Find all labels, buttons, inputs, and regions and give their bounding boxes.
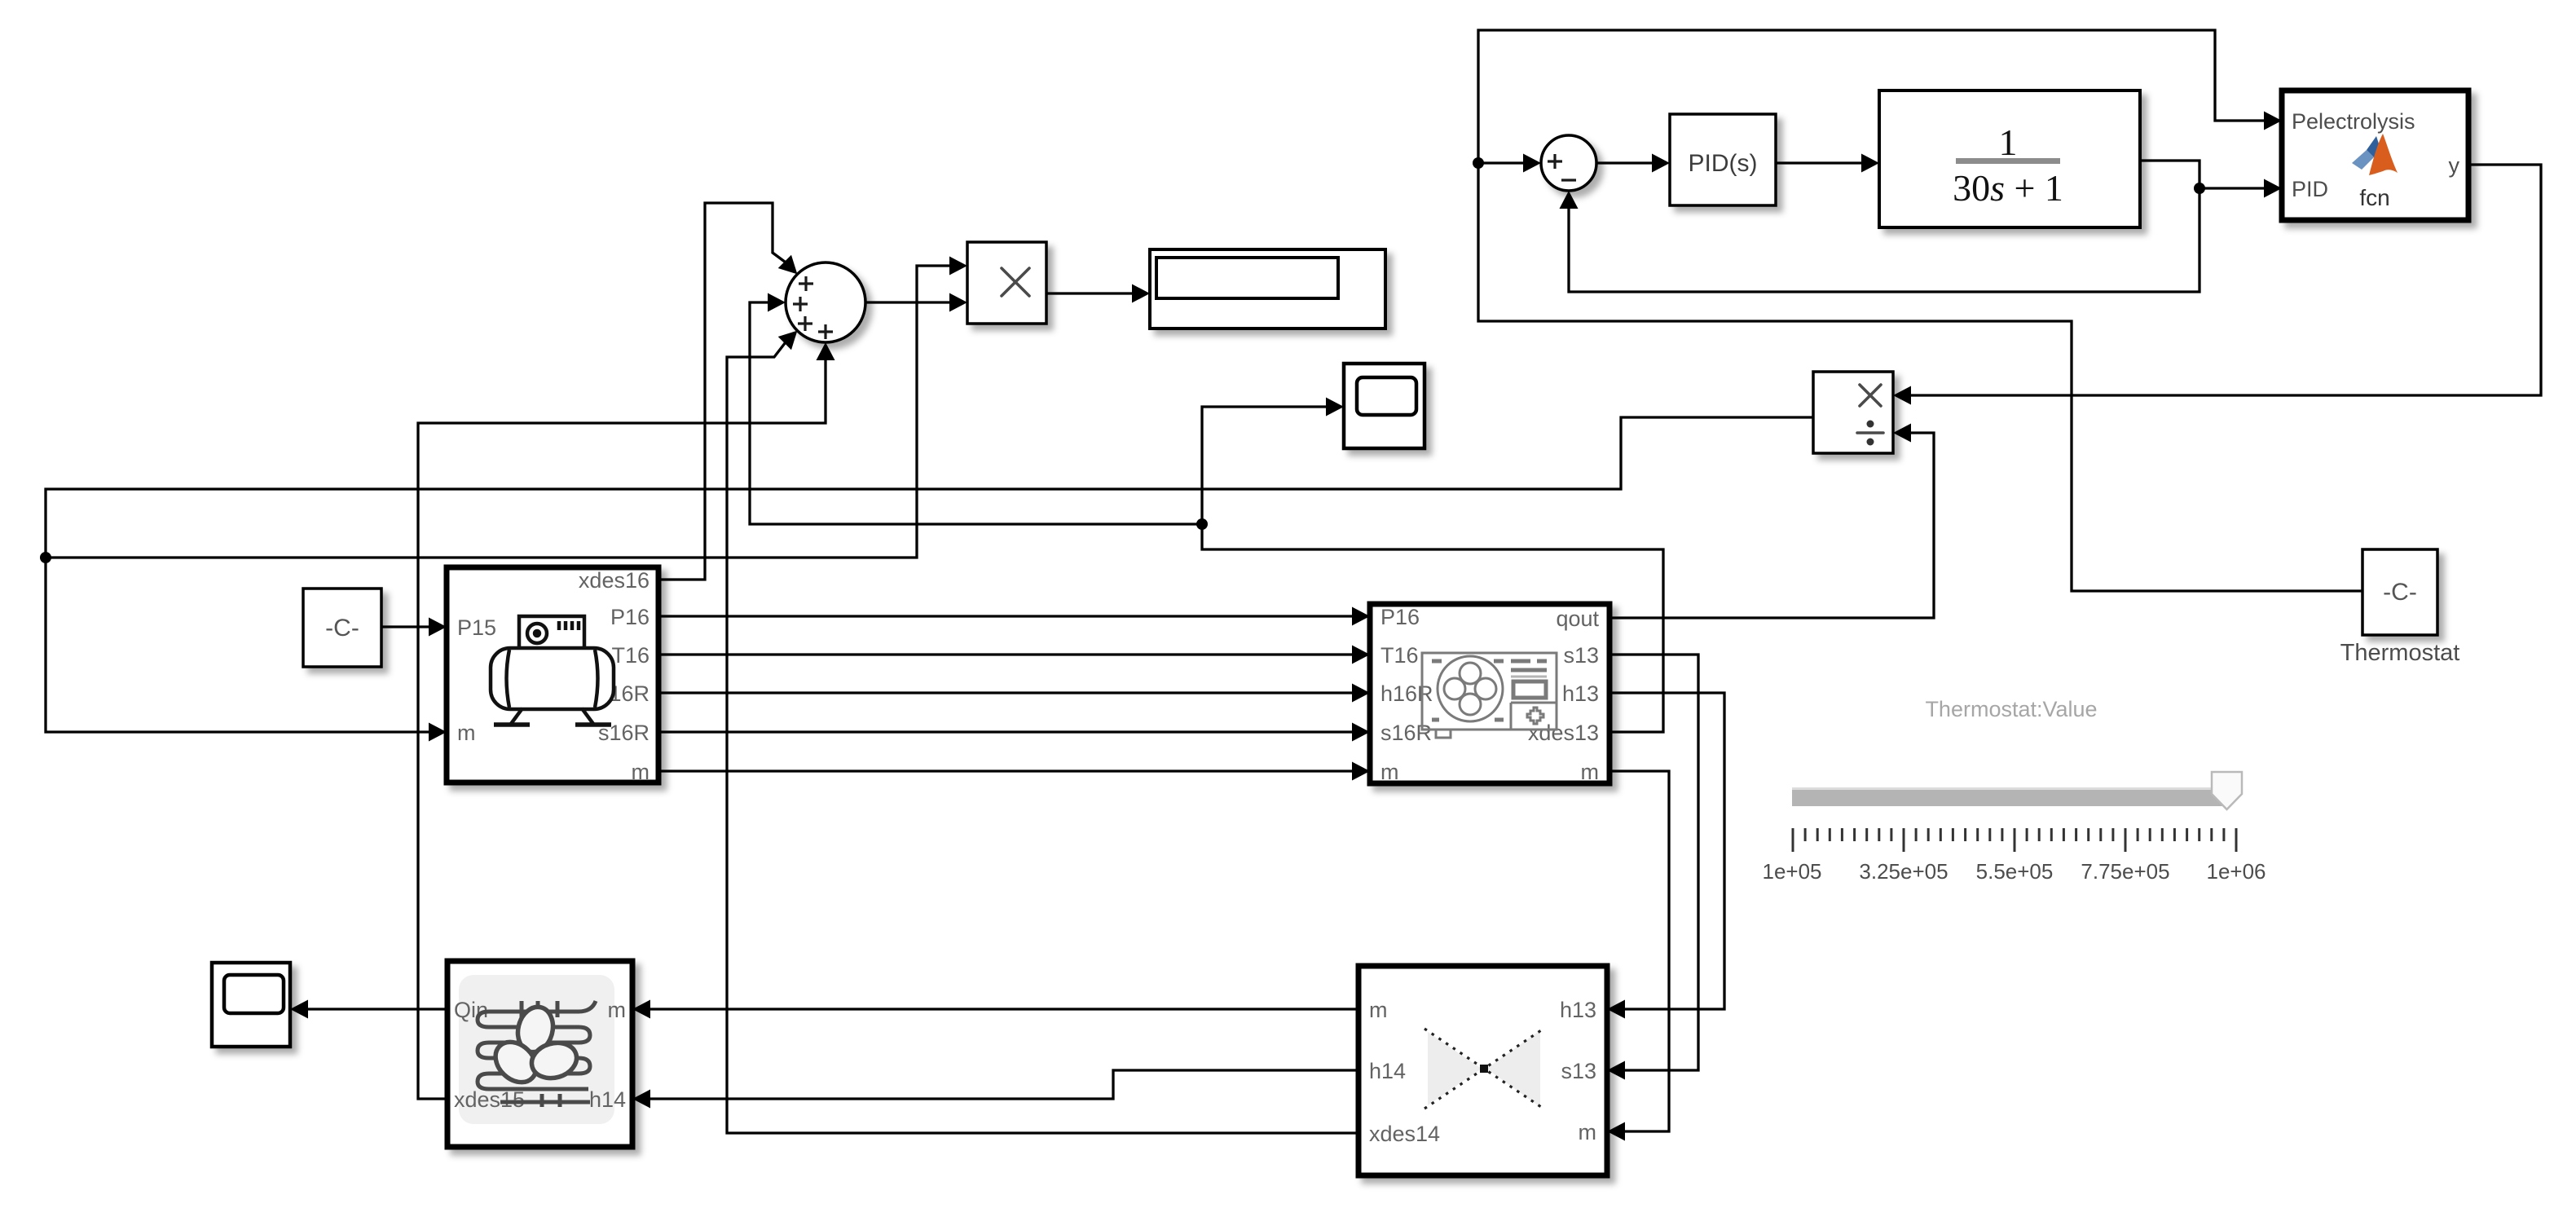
svg-text:m: m	[1581, 760, 1600, 784]
svg-text:1: 1	[1999, 121, 2018, 163]
svg-text:m: m	[608, 998, 627, 1022]
svg-text:P16: P16	[610, 605, 650, 629]
svg-text:xdes14: xdes14	[1369, 1122, 1440, 1146]
svg-text:s13: s13	[1563, 643, 1599, 668]
svg-text:T16: T16	[611, 643, 650, 668]
svg-text:Pelectrolysis: Pelectrolysis	[2292, 109, 2415, 134]
svg-text:5.5e+05: 5.5e+05	[1976, 859, 2054, 884]
svg-text:qout: qout	[1556, 606, 1599, 631]
svg-text:PID(s): PID(s)	[1689, 150, 1758, 177]
svg-text:m: m	[632, 760, 650, 784]
svg-text:PID: PID	[2292, 177, 2328, 201]
svg-text:7.75e+05: 7.75e+05	[2081, 859, 2169, 884]
svg-text:s16R: s16R	[1380, 721, 1432, 745]
svg-text:Qin: Qin	[454, 998, 488, 1022]
svg-text:y: y	[2449, 153, 2460, 178]
svg-text:h14: h14	[589, 1087, 626, 1112]
svg-text:Thermostat: Thermostat	[2340, 640, 2460, 666]
svg-text:-C-: -C-	[2383, 579, 2417, 606]
svg-text:m: m	[1579, 1120, 1597, 1144]
svg-text:30s + 1: 30s + 1	[1953, 167, 2063, 209]
svg-text:-C-: -C-	[325, 615, 359, 642]
svg-text:1e+06: 1e+06	[2206, 859, 2266, 884]
svg-text:P15: P15	[457, 615, 496, 640]
svg-text:3.25e+05: 3.25e+05	[1859, 859, 1948, 884]
svg-text:xdes16: xdes16	[579, 568, 650, 593]
svg-text:Thermostat:Value: Thermostat:Value	[1925, 697, 2097, 721]
svg-text:h16R: h16R	[1380, 681, 1433, 706]
svg-text:fcn: fcn	[2359, 185, 2389, 210]
svg-text:h14: h14	[1369, 1059, 1406, 1083]
svg-text:P16: P16	[1380, 605, 1420, 629]
svg-text:1e+05: 1e+05	[1762, 859, 1821, 884]
svg-text:m: m	[457, 721, 476, 745]
svg-text:T16: T16	[1380, 643, 1419, 668]
svg-text:xdes13: xdes13	[1528, 721, 1599, 745]
svg-text:s13: s13	[1561, 1059, 1596, 1083]
svg-text:m: m	[1380, 760, 1399, 784]
svg-text:h13: h13	[1560, 998, 1596, 1022]
svg-text:h13: h13	[1562, 681, 1599, 706]
svg-text:m: m	[1369, 998, 1388, 1022]
